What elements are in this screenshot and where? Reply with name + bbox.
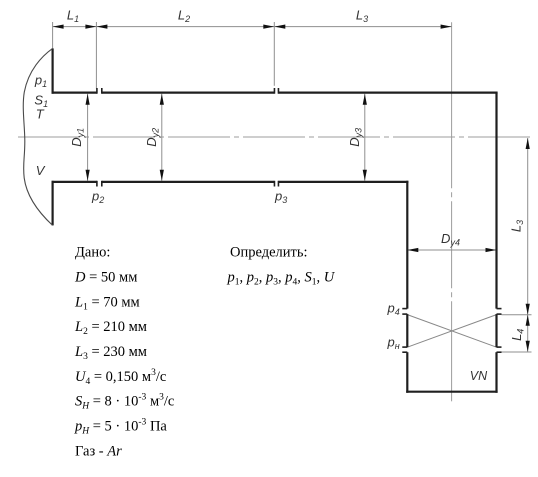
svg-text:VN: VN bbox=[470, 369, 488, 383]
svg-text:Определить:: Определить: bbox=[230, 245, 308, 261]
svg-text:V: V bbox=[36, 163, 46, 178]
svg-text:D = 50 мм: D = 50 мм bbox=[74, 269, 137, 285]
svg-text:p1, p2, p3, p4, S1, U: p1, p2, p3, p4, S1, U bbox=[227, 269, 336, 287]
svg-text:Дано:: Дано: bbox=[75, 245, 110, 261]
svg-text:Газ - Ar: Газ - Ar bbox=[75, 443, 122, 459]
svg-text:T: T bbox=[36, 107, 45, 122]
